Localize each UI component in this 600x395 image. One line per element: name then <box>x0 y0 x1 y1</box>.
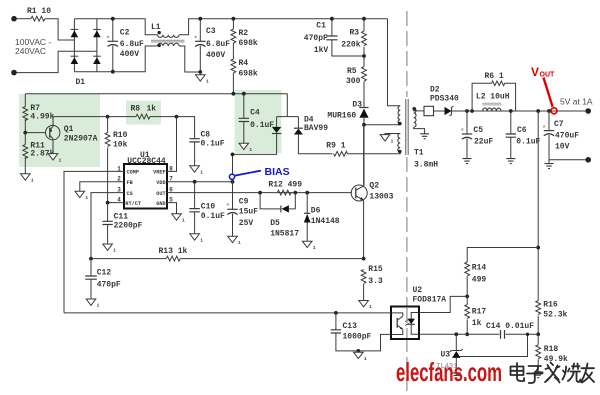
output rail <box>465 109 586 113</box>
wire <box>232 43 234 59</box>
svg-text:COMP: COMP <box>127 170 139 176</box>
resistor R14 <box>465 262 487 298</box>
transformer T1 secondary winding <box>412 107 438 169</box>
wire secondary bottom to ground <box>414 127 425 134</box>
wire divider node across top <box>25 92 287 96</box>
svg-text:elecfans.com: elecfans.com <box>396 357 502 387</box>
svg-text:C2: C2 <box>120 29 130 38</box>
node label 100VAC-240VAC <box>15 37 51 56</box>
svg-text:UCC28C44: UCC28C44 <box>127 157 166 166</box>
svg-text:C6: C6 <box>517 126 527 135</box>
resistor R4 <box>231 59 258 79</box>
svg-text:R17: R17 <box>472 308 487 317</box>
ground below C9 <box>228 236 241 246</box>
svg-text:1: 1 <box>182 218 185 224</box>
svg-text:C11: C11 <box>114 213 129 222</box>
resistor R13 <box>91 247 364 261</box>
ground below C13 <box>354 351 367 362</box>
wire R4 bottom to divider node <box>232 73 234 94</box>
input terminal top <box>11 16 17 22</box>
resistor R3 <box>341 17 366 58</box>
capacitor C1 <box>304 17 364 56</box>
svg-text:10V: 10V <box>555 143 570 152</box>
svg-text:1: 1 <box>200 170 203 176</box>
resistor R9 <box>326 142 347 157</box>
wire pin6 OUT line <box>167 192 352 194</box>
svg-text:R6 1: R6 1 <box>485 72 504 81</box>
svg-text:R18: R18 <box>544 345 559 354</box>
wire pin7 VDD line <box>167 180 234 184</box>
transformer T1 core <box>406 99 409 155</box>
svg-text:R1 10: R1 10 <box>27 7 51 16</box>
svg-text:BIAS: BIAS <box>265 166 290 178</box>
resistor R7 <box>23 94 55 133</box>
svg-text:1: 1 <box>206 79 209 85</box>
svg-text:Q1: Q1 <box>64 125 74 134</box>
resistor R6 <box>472 72 515 111</box>
svg-text:R2: R2 <box>239 29 249 38</box>
svg-text:D1: D1 <box>76 78 86 87</box>
svg-text:*: * <box>542 126 546 134</box>
node primary switch junction <box>362 123 400 127</box>
svg-text:*: * <box>226 204 230 212</box>
svg-text:V: V <box>531 65 539 79</box>
svg-text:400V: 400V <box>206 51 225 60</box>
resistor R1 <box>27 7 51 21</box>
resistor R11 <box>23 133 55 174</box>
diode D5 1N5817 <box>258 191 299 239</box>
svg-text:C9: C9 <box>239 198 249 207</box>
svg-text:1: 1 <box>59 157 62 163</box>
resistor R18 <box>536 334 568 372</box>
svg-text:52.3k: 52.3k <box>543 311 567 320</box>
svg-text:D2: D2 <box>430 86 440 95</box>
svg-text:R16: R16 <box>543 300 558 309</box>
dual diode D4 BAV99 <box>233 94 329 155</box>
wire top rail down to primary <box>388 19 401 106</box>
wire L1 right to rail <box>179 19 387 35</box>
transistor Q1 2N2907A <box>46 117 98 154</box>
earth ground C5 <box>463 159 472 164</box>
wire pin2 FB to ground <box>80 182 124 192</box>
resistor R5 <box>346 56 366 107</box>
svg-text:15uF: 15uF <box>239 207 258 216</box>
ground below D6 <box>302 241 315 251</box>
earth ground U3 <box>452 373 461 378</box>
resistor R15 <box>361 257 383 301</box>
svg-text:OUT: OUT <box>156 191 165 197</box>
bridge rectifier D1 <box>71 19 101 87</box>
resistor R2 <box>231 17 258 48</box>
svg-text:1: 1 <box>364 356 367 362</box>
svg-text:U2: U2 <box>413 286 423 295</box>
output terminal bottom <box>585 157 591 163</box>
output terminal top <box>585 108 591 114</box>
op-amp U1 UCC28C44 box <box>117 151 173 209</box>
diode D3 MUR160 <box>327 101 368 186</box>
ground pin5 <box>172 214 185 224</box>
capacitor C2 <box>106 17 144 74</box>
svg-text:49.9k: 49.9k <box>544 355 568 364</box>
svg-text:1: 1 <box>369 304 372 310</box>
svg-text:698k: 698k <box>239 70 258 79</box>
svg-text:*: * <box>194 36 198 44</box>
resistor R8 <box>108 105 179 120</box>
svg-text:13003: 13003 <box>369 192 393 201</box>
BIAS annotation <box>229 166 289 179</box>
node label 5V at 1A <box>560 97 593 107</box>
svg-text:BAV99: BAV99 <box>304 124 328 133</box>
transformer T1 bias winding <box>398 134 402 154</box>
wire secondary top to D2 <box>414 108 424 111</box>
svg-text:0.1uF: 0.1uF <box>250 121 274 130</box>
capacitor C7 <box>542 111 579 160</box>
svg-text:0.1uF: 0.1uF <box>201 139 225 148</box>
svg-text:1: 1 <box>238 240 241 246</box>
svg-text:1k: 1k <box>472 319 482 328</box>
svg-text:C4: C4 <box>250 109 260 118</box>
VOUT marker <box>531 65 557 114</box>
svg-text:C1: C1 <box>316 22 326 31</box>
wire R9 to D4 <box>298 135 332 154</box>
common mode choke L1 <box>151 23 185 47</box>
svg-text:Q2: Q2 <box>369 181 379 190</box>
svg-text:T1: T1 <box>414 149 424 158</box>
resistor R17 <box>465 296 487 336</box>
svg-text:4.99k: 4.99k <box>30 112 54 121</box>
highlight box around C4 <box>235 90 282 153</box>
watermark elecfans.com <box>396 357 502 387</box>
svg-text:1: 1 <box>85 195 88 201</box>
node BIAS wire <box>231 153 235 210</box>
wire COMP line to U2 <box>64 311 391 315</box>
svg-text:OUT: OUT <box>540 72 556 79</box>
resistor R10 <box>105 117 127 203</box>
svg-text:*: * <box>106 36 110 44</box>
svg-text:10k: 10k <box>113 141 128 150</box>
transformer T1 primary winding <box>398 106 402 126</box>
wire bottom rail bridge to C2 to L1 <box>74 46 157 72</box>
ground below Q1 <box>48 154 61 164</box>
ground below R11 <box>21 174 34 184</box>
wire pin8 VREF riser <box>167 117 177 172</box>
svg-text:1N4148: 1N4148 <box>311 217 340 226</box>
svg-text:1N5817: 1N5817 <box>270 229 299 238</box>
wire U2 LED cathode line <box>419 332 500 336</box>
svg-text:MUR160: MUR160 <box>327 112 356 121</box>
svg-text:2N2907A: 2N2907A <box>64 135 98 144</box>
svg-text:C13: C13 <box>343 322 358 331</box>
svg-text:R12 499: R12 499 <box>268 181 302 190</box>
capacitor C12 <box>85 259 121 299</box>
svg-text:C10: C10 <box>201 203 216 212</box>
svg-text:698k: 698k <box>239 39 258 48</box>
capacitor C5 <box>460 111 493 159</box>
svg-text:R13 1k: R13 1k <box>159 247 188 256</box>
svg-text:L2 10uH: L2 10uH <box>476 93 510 102</box>
svg-text:C7: C7 <box>554 120 564 129</box>
resistor R12 <box>268 181 302 195</box>
ground bias winding <box>380 135 393 145</box>
node Q1 base junction <box>23 131 45 135</box>
svg-text:1: 1 <box>391 138 394 144</box>
svg-text:1: 1 <box>313 245 316 251</box>
wire bias winding bottom to R9 <box>348 152 401 154</box>
wire <box>17 18 32 20</box>
diode D2 PDS340 <box>430 86 467 116</box>
wire bias winding top to ground <box>385 134 400 135</box>
inductor L2 <box>476 93 510 112</box>
svg-text:2200pF: 2200pF <box>114 221 143 230</box>
svg-text:240VAC: 240VAC <box>15 46 46 56</box>
opto U2 FOD817A <box>391 286 446 339</box>
svg-text:1: 1 <box>249 147 252 153</box>
capacitor C4 <box>239 94 275 144</box>
shunt regulator U3 TL431 <box>436 333 529 373</box>
svg-text:1: 1 <box>31 178 34 184</box>
wire top rail bridge to C2 to L1 <box>74 19 157 35</box>
svg-text:C5: C5 <box>473 126 483 135</box>
svg-text:R8: R8 <box>131 105 141 114</box>
svg-text:0.1uF: 0.1uF <box>201 212 225 221</box>
svg-text:RT/CT: RT/CT <box>125 201 141 207</box>
output return wire <box>549 159 586 161</box>
svg-text:R14: R14 <box>472 264 487 273</box>
svg-text:3.3: 3.3 <box>368 277 383 286</box>
svg-text:FOD817A: FOD817A <box>413 296 447 305</box>
svg-text:R3: R3 <box>350 29 360 38</box>
svg-text:R10: R10 <box>113 131 128 140</box>
wire pin5 GND to ground <box>167 203 177 214</box>
svg-text:3.8mH: 3.8mH <box>414 160 438 169</box>
svg-text:25V: 25V <box>239 219 254 228</box>
svg-text:R4: R4 <box>239 59 249 68</box>
earth ground C6 <box>506 159 515 164</box>
svg-text:1k: 1k <box>147 105 157 114</box>
capacitor C9 <box>226 198 259 237</box>
highlight box around R7 Q1 R11 <box>19 94 100 167</box>
svg-text:1000pF: 1000pF <box>343 333 372 342</box>
svg-text:6.8uF: 6.8uF <box>120 40 144 49</box>
capacitor C3 <box>194 17 231 74</box>
svg-text:6.8uF: 6.8uF <box>206 40 230 49</box>
wire pin4 RT/CT <box>106 201 124 205</box>
svg-text:L1: L1 <box>151 23 161 32</box>
svg-text:1: 1 <box>200 238 203 244</box>
input terminal bottom <box>11 70 17 76</box>
wire Q1 emitter to VREF net <box>53 115 110 119</box>
isolation dashed line through opto <box>406 308 408 338</box>
svg-text:C14 0.01uF: C14 0.01uF <box>486 322 534 331</box>
svg-text:400V: 400V <box>120 50 139 59</box>
capacitor C6 <box>506 111 541 159</box>
ground below C11 <box>103 244 116 254</box>
svg-text:C8: C8 <box>201 130 211 139</box>
wire L1 bottom right to C3 <box>179 46 200 72</box>
ground below R15 <box>359 301 372 311</box>
capacitor C14 <box>486 322 538 339</box>
svg-text:1: 1 <box>97 303 100 309</box>
ground below C8 <box>190 166 203 176</box>
watermark chinese characters <box>511 363 595 384</box>
ground below C10 <box>190 234 203 244</box>
earth ground secondary <box>420 134 429 139</box>
svg-text:D6: D6 <box>311 207 321 216</box>
capacitor C8 <box>177 117 225 166</box>
svg-text:470pF: 470pF <box>304 34 328 43</box>
svg-text:R5: R5 <box>347 67 357 76</box>
bead box at D2 <box>424 106 434 115</box>
capacitor C10 <box>189 182 225 234</box>
resistor R16 <box>536 300 568 336</box>
svg-text:470pF: 470pF <box>97 281 121 290</box>
earth ground R18 <box>534 373 543 378</box>
svg-text:*: * <box>460 129 464 137</box>
svg-text:C12: C12 <box>97 269 112 278</box>
svg-text:R15: R15 <box>368 265 383 274</box>
earth ground C7 <box>545 160 554 169</box>
svg-text:470uF: 470uF <box>555 132 579 141</box>
ground below C12 <box>86 299 99 309</box>
svg-text:499: 499 <box>472 276 487 285</box>
svg-text:CS: CS <box>127 191 133 197</box>
highlight box around R8 <box>126 101 161 125</box>
svg-text:VREF: VREF <box>153 170 165 176</box>
wire <box>17 51 97 72</box>
wire pin3 CS to left and down <box>89 193 124 261</box>
svg-text:D5: D5 <box>270 219 280 228</box>
capacitor C13 <box>331 313 391 353</box>
ground below C4 <box>239 143 252 153</box>
svg-text:C3: C3 <box>206 27 216 36</box>
transistor Q2 13003 <box>351 125 393 259</box>
svg-text:1kV: 1kV <box>314 46 329 55</box>
svg-text:R9 1: R9 1 <box>326 142 345 151</box>
svg-text:D3: D3 <box>352 101 362 110</box>
svg-text:5V at 1A: 5V at 1A <box>560 97 593 107</box>
svg-text:GND: GND <box>156 201 165 207</box>
svg-text:0.1uF: 0.1uF <box>516 138 540 147</box>
svg-text:220k: 220k <box>341 40 360 49</box>
isolation dashed line <box>406 11 408 391</box>
feedback column wire <box>467 111 540 301</box>
wire U2 LED anode to R14/R17 junction <box>419 296 467 312</box>
wire <box>45 19 74 40</box>
capacitor C11 <box>102 203 142 244</box>
svg-text:PDS340: PDS340 <box>430 95 459 104</box>
wire pin1 COMP to left <box>64 171 124 313</box>
svg-text:22uF: 22uF <box>474 138 493 147</box>
svg-text:VDD: VDD <box>156 180 165 186</box>
ground below C3 <box>196 72 210 85</box>
svg-text:FB: FB <box>127 180 133 186</box>
svg-text:300: 300 <box>346 77 361 86</box>
svg-text:1: 1 <box>113 248 116 254</box>
ground FB <box>75 191 88 201</box>
diode D6 1N4148 <box>304 191 340 241</box>
